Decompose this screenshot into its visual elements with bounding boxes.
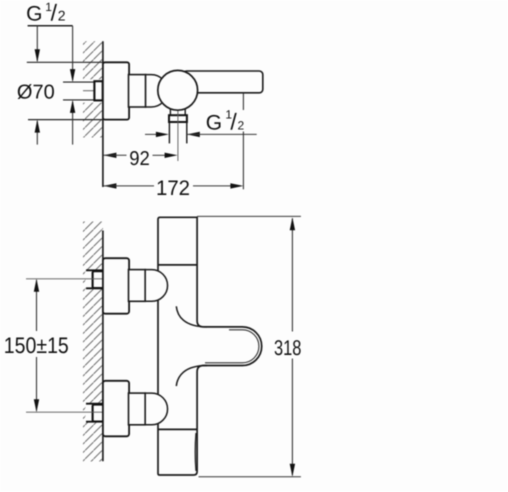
svg-text:G: G bbox=[26, 3, 42, 26]
svg-text:2: 2 bbox=[58, 8, 66, 24]
svg-text:Ø70: Ø70 bbox=[17, 81, 55, 103]
svg-text:/: / bbox=[51, 0, 58, 26]
svg-text:G: G bbox=[206, 112, 222, 135]
svg-text:92: 92 bbox=[129, 148, 150, 170]
svg-text:2: 2 bbox=[238, 119, 245, 133]
svg-text:/: / bbox=[230, 109, 237, 135]
svg-text:172: 172 bbox=[156, 177, 190, 200]
svg-text:318: 318 bbox=[274, 336, 301, 360]
svg-text:150±15: 150±15 bbox=[4, 333, 69, 358]
